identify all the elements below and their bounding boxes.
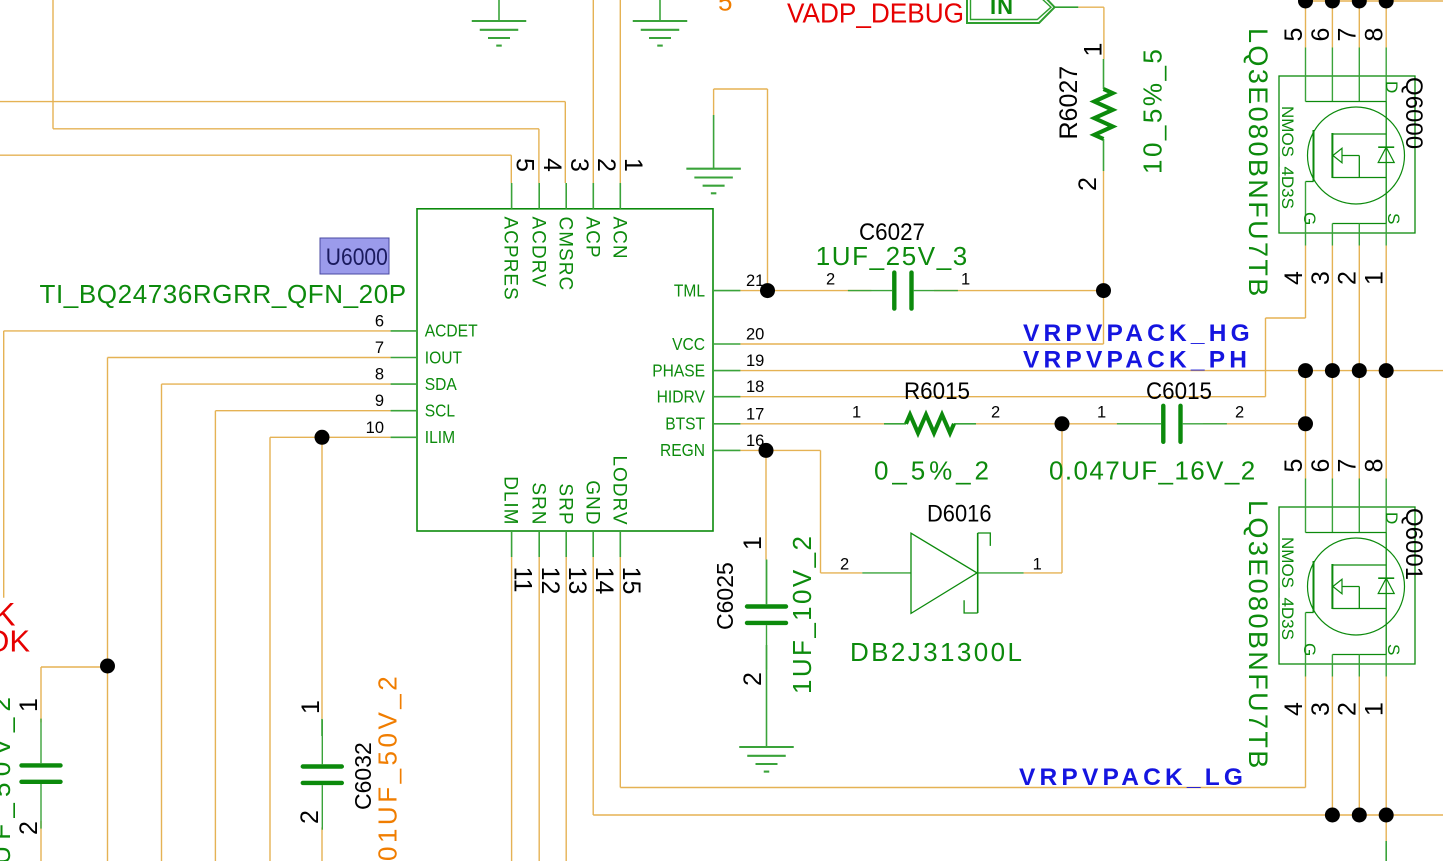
svg-text:8: 8 bbox=[1361, 459, 1389, 473]
svg-text:5: 5 bbox=[1280, 28, 1308, 42]
svg-text:VCC: VCC bbox=[672, 334, 705, 354]
svg-text:12: 12 bbox=[536, 567, 564, 595]
svg-text:DB2J31300L: DB2J31300L bbox=[850, 637, 1024, 667]
svg-text:U6000: U6000 bbox=[326, 244, 388, 271]
svg-text:VRPVPACK_PH: VRPVPACK_PH bbox=[1023, 347, 1251, 374]
svg-text:ACPRES: ACPRES bbox=[500, 217, 521, 301]
svg-text:1UF_25V_3: 1UF_25V_3 bbox=[816, 241, 969, 271]
svg-text:ACDET: ACDET bbox=[425, 321, 478, 341]
svg-text:0.047UF_16V_2: 0.047UF_16V_2 bbox=[1049, 456, 1257, 486]
svg-text:IOUT: IOUT bbox=[425, 347, 463, 367]
svg-text:ILIM: ILIM bbox=[425, 427, 455, 447]
svg-text:SCL: SCL bbox=[425, 401, 456, 421]
svg-text:SDA: SDA bbox=[425, 374, 457, 394]
svg-text:CMSRC: CMSRC bbox=[554, 217, 575, 292]
svg-text:10: 10 bbox=[366, 419, 384, 437]
svg-text:1: 1 bbox=[739, 536, 767, 550]
svg-text:1: 1 bbox=[961, 271, 970, 289]
svg-text:2: 2 bbox=[739, 672, 767, 686]
svg-text:14: 14 bbox=[590, 567, 618, 595]
svg-text:0_5%_2: 0_5%_2 bbox=[874, 456, 993, 486]
svg-text:VRPVPACK_LG: VRPVPACK_LG bbox=[1019, 764, 1247, 791]
svg-text:Q6001: Q6001 bbox=[1400, 508, 1427, 580]
svg-text:S: S bbox=[1384, 213, 1403, 224]
svg-text:15: 15 bbox=[617, 567, 645, 595]
svg-text:5: 5 bbox=[718, 0, 732, 17]
svg-text:LQ3E080BNFU7TB: LQ3E080BNFU7TB bbox=[1243, 28, 1273, 299]
svg-text:9: 9 bbox=[375, 392, 384, 410]
svg-text:5: 5 bbox=[1280, 459, 1308, 473]
svg-text:11: 11 bbox=[508, 567, 536, 593]
svg-text:R6015: R6015 bbox=[904, 378, 970, 405]
svg-text:10_5%_5: 10_5%_5 bbox=[1138, 47, 1168, 174]
svg-text:19: 19 bbox=[746, 352, 764, 370]
svg-text:OK: OK bbox=[0, 624, 30, 659]
svg-text:7: 7 bbox=[1334, 28, 1362, 42]
svg-text:2: 2 bbox=[1074, 177, 1102, 191]
svg-text:20: 20 bbox=[746, 326, 764, 344]
svg-text:2: 2 bbox=[1334, 271, 1362, 285]
svg-text:TML: TML bbox=[674, 280, 705, 300]
svg-text:4: 4 bbox=[1280, 271, 1308, 285]
svg-text:7: 7 bbox=[1334, 459, 1362, 473]
svg-text:4: 4 bbox=[1280, 702, 1308, 716]
svg-text:D: D bbox=[1382, 81, 1401, 93]
svg-text:01UF_50V_2: 01UF_50V_2 bbox=[373, 673, 403, 861]
svg-text:VRPVPACK_HG: VRPVPACK_HG bbox=[1023, 320, 1254, 347]
svg-text:REGN: REGN bbox=[660, 440, 705, 460]
svg-text:C6025: C6025 bbox=[712, 562, 738, 630]
svg-text:2: 2 bbox=[1235, 404, 1244, 422]
svg-text:C6015: C6015 bbox=[1146, 378, 1212, 405]
svg-text:17: 17 bbox=[746, 405, 764, 423]
svg-text:8: 8 bbox=[375, 366, 384, 384]
svg-text:2: 2 bbox=[592, 158, 620, 172]
svg-text:1: 1 bbox=[852, 404, 861, 422]
svg-text:8: 8 bbox=[1361, 28, 1389, 42]
svg-text:1: 1 bbox=[15, 698, 43, 712]
svg-text:1: 1 bbox=[619, 158, 647, 172]
svg-text:1: 1 bbox=[1361, 271, 1389, 285]
svg-text:D6016: D6016 bbox=[927, 501, 992, 528]
svg-text:13: 13 bbox=[563, 567, 591, 595]
svg-text:DLIM: DLIM bbox=[500, 476, 521, 525]
svg-text:5: 5 bbox=[510, 158, 538, 172]
svg-text:SRP: SRP bbox=[554, 483, 575, 525]
svg-text:1: 1 bbox=[1361, 702, 1389, 716]
svg-text:G: G bbox=[1300, 643, 1319, 656]
svg-text:IN: IN bbox=[990, 0, 1014, 19]
svg-text:GND: GND bbox=[581, 480, 602, 525]
svg-text:1: 1 bbox=[1080, 43, 1108, 57]
svg-text:4: 4 bbox=[538, 158, 566, 172]
svg-text:6: 6 bbox=[1307, 28, 1335, 42]
svg-text:TI_BQ24736RGRR_QFN_20P: TI_BQ24736RGRR_QFN_20P bbox=[40, 279, 407, 309]
svg-text:ACP: ACP bbox=[581, 217, 602, 259]
svg-text:3: 3 bbox=[1307, 702, 1335, 716]
svg-text:ACN: ACN bbox=[608, 217, 629, 260]
svg-text:2: 2 bbox=[296, 810, 324, 824]
svg-text:6: 6 bbox=[375, 312, 384, 330]
svg-text:NMOS_4D3S: NMOS_4D3S bbox=[1278, 537, 1297, 640]
svg-text:G: G bbox=[1300, 212, 1319, 225]
svg-text:2: 2 bbox=[15, 821, 43, 835]
svg-text:3: 3 bbox=[565, 158, 593, 172]
svg-text:ACDRV: ACDRV bbox=[527, 217, 548, 288]
svg-text:2: 2 bbox=[840, 555, 849, 573]
svg-text:BTST: BTST bbox=[665, 414, 705, 434]
svg-text:1UF_10V_2: 1UF_10V_2 bbox=[787, 534, 817, 694]
svg-text:18: 18 bbox=[746, 378, 764, 396]
svg-text:NMOS_4D3S: NMOS_4D3S bbox=[1278, 106, 1297, 209]
svg-text:7: 7 bbox=[375, 339, 384, 357]
svg-text:1: 1 bbox=[1097, 404, 1106, 422]
svg-text:S: S bbox=[1384, 644, 1403, 655]
svg-text:2: 2 bbox=[991, 404, 1000, 422]
svg-text:Q6000: Q6000 bbox=[1400, 77, 1427, 149]
svg-text:PHASE: PHASE bbox=[652, 360, 705, 380]
svg-text:6: 6 bbox=[1307, 459, 1335, 473]
svg-text:VADP_DEBUG: VADP_DEBUG bbox=[787, 0, 964, 29]
svg-text:D: D bbox=[1382, 512, 1401, 524]
svg-text:SRN: SRN bbox=[527, 482, 548, 525]
svg-text:LQ3E080BNFU7TB: LQ3E080BNFU7TB bbox=[1243, 500, 1273, 771]
svg-text:LODRV: LODRV bbox=[608, 455, 629, 525]
svg-text:R6027: R6027 bbox=[1055, 66, 1083, 140]
svg-text:2: 2 bbox=[826, 271, 835, 289]
svg-text:2: 2 bbox=[1334, 702, 1362, 716]
svg-text:1: 1 bbox=[297, 700, 325, 714]
svg-text:3: 3 bbox=[1307, 271, 1335, 285]
svg-text:1: 1 bbox=[1033, 555, 1042, 573]
svg-text:01UF_50V_2: 01UF_50V_2 bbox=[0, 691, 16, 861]
svg-text:HIDRV: HIDRV bbox=[657, 387, 706, 407]
